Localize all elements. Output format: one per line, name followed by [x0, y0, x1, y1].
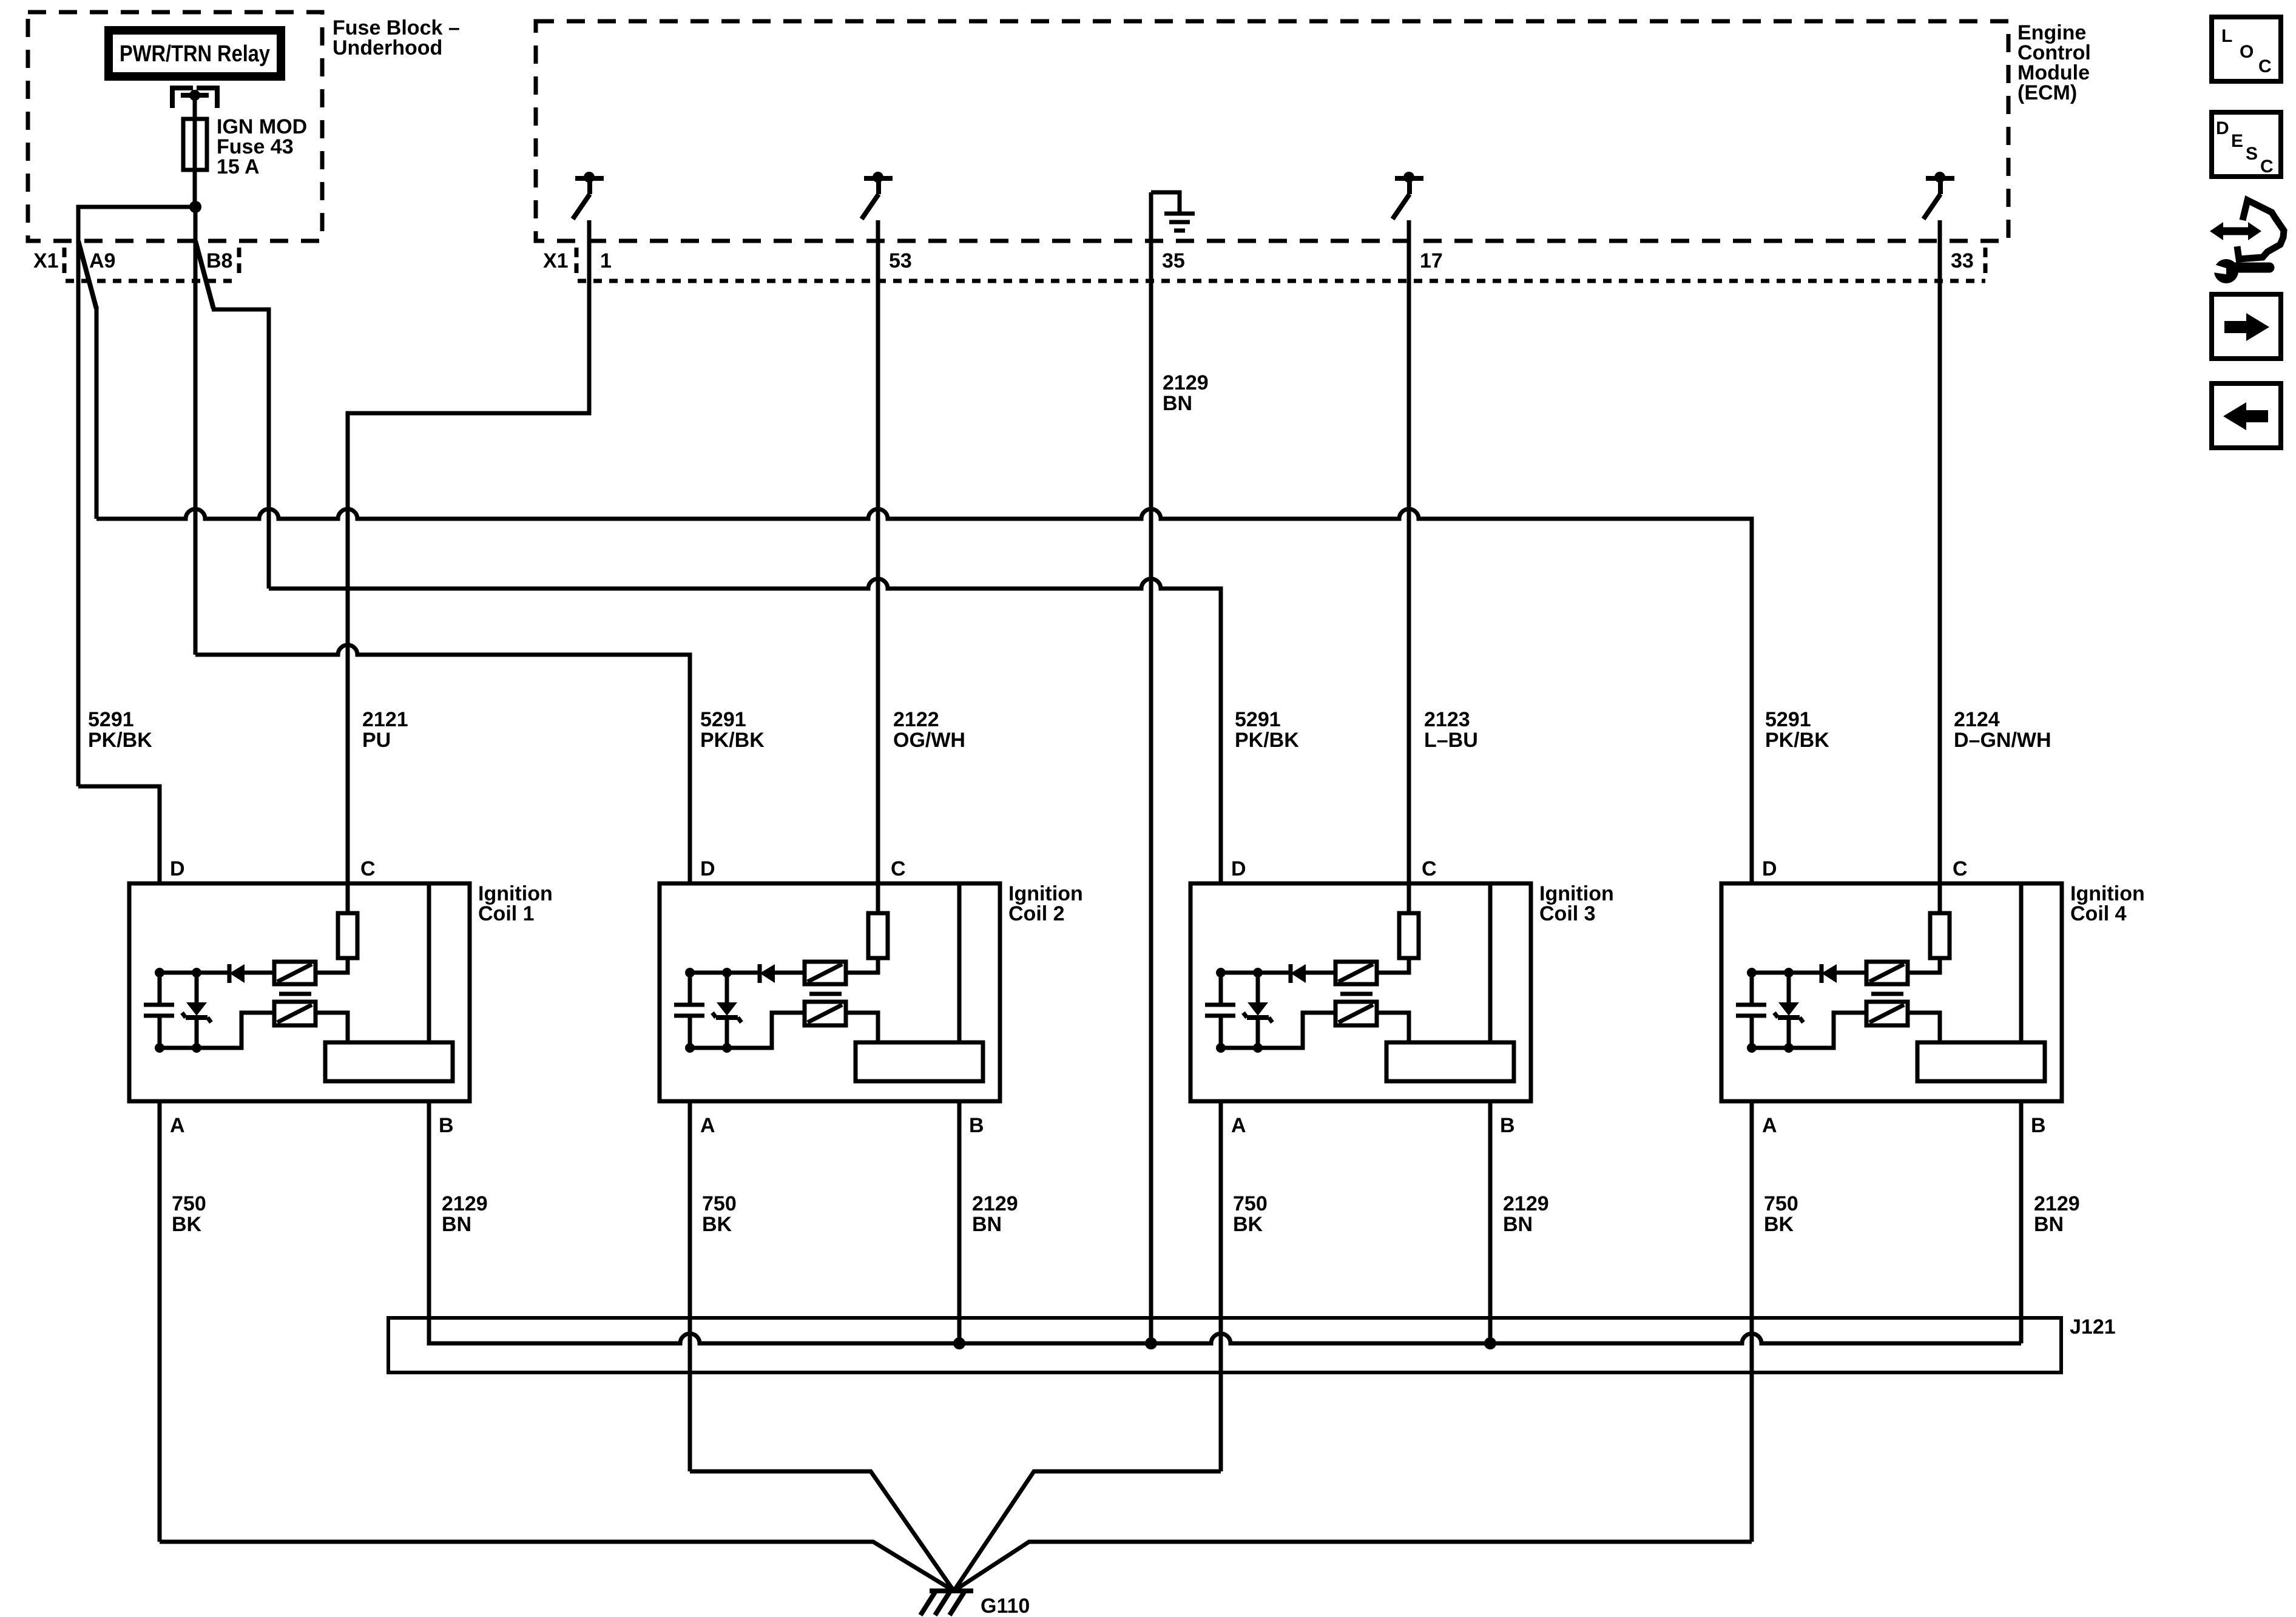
pin A9 slant — [78, 241, 96, 309]
ignition coil 1 label — [478, 882, 553, 925]
ground wire upper run (coil2 A / coil3 A) — [690, 1471, 1221, 1591]
coil 1 label 750 BK — [172, 1192, 206, 1236]
coil 4 secondary winding — [1866, 1002, 1908, 1025]
svg-text:2129: 2129 — [972, 1192, 1018, 1215]
coil 4 label 750 BK — [1764, 1192, 1798, 1236]
pin label 17 — [1420, 249, 1443, 272]
svg-text:PK/BK: PK/BK — [1235, 729, 1299, 752]
ignition coil 1 box — [129, 883, 470, 1101]
pin label 53 — [889, 249, 912, 272]
wire label 5291 PK/BK — [700, 708, 765, 752]
svg-text:OG/WH: OG/WH — [893, 729, 965, 752]
svg-text:B: B — [969, 1114, 984, 1137]
coil 2 wire C to resistor — [876, 883, 880, 913]
svg-text:2129: 2129 — [2034, 1192, 2080, 1215]
coil 4 wire secondary to module — [1752, 1013, 1940, 1048]
svg-text:C: C — [2258, 56, 2272, 76]
coil 4 core — [1871, 992, 1903, 996]
splice J121 outline — [388, 1318, 2061, 1372]
coil 2 junction nodes — [685, 968, 732, 1053]
coil 2 zener triangle — [717, 1002, 737, 1016]
ECM driver switch pin 53 — [862, 178, 893, 219]
svg-text:750: 750 — [1764, 1192, 1798, 1215]
coil 3 wire A 750 BK — [1219, 1101, 1223, 1471]
fuse block connector X1 row — [64, 248, 239, 281]
coil 4 primary winding — [1866, 962, 1908, 984]
wire ECM pin 17 to coil 3 C (2123 L-BU) — [1407, 220, 1411, 913]
coil 2 wire secondary to module — [690, 1013, 878, 1048]
svg-text:C: C — [2260, 157, 2274, 177]
ignition coil 4 box — [1721, 883, 2062, 1101]
svg-text:J121: J121 — [2070, 1315, 2116, 1338]
ECM label — [2017, 21, 2091, 104]
ignition coil 3 box — [1190, 883, 1531, 1101]
coil 2 wire A 750 BK — [688, 1101, 692, 1471]
wire label 2124 D–GN/WH — [1954, 708, 2051, 752]
svg-text:2129: 2129 — [442, 1192, 488, 1215]
connector label X1 (ECM) — [543, 249, 569, 272]
svg-text:Underhood: Underhood — [333, 36, 442, 59]
coil 3 diode D1 — [1291, 964, 1306, 983]
svg-text:15 A: 15 A — [217, 155, 260, 178]
coil 3 wire D junction row — [1221, 971, 1335, 975]
coil 1 wire C to resistor — [346, 883, 350, 913]
coil 3 junction nodes — [1216, 968, 1263, 1053]
wire ECM pin 35 ground 2129 BN to splice J121 — [1149, 192, 1153, 1343]
svg-text:A: A — [1231, 1114, 1246, 1137]
coil 3 driver module block — [1386, 883, 1514, 1081]
coil 1 wire resistor to primary winding — [316, 958, 348, 973]
coil 1 core — [279, 992, 311, 996]
coil 4 wire C to resistor — [1938, 883, 1942, 913]
svg-text:2129: 2129 — [1503, 1192, 1549, 1215]
coil 1 wire A 750 BK — [158, 1101, 162, 1542]
wire ECM pin 53 to coil 2 C (2122 OG/WH) — [876, 220, 880, 913]
svg-text:D: D — [2216, 118, 2229, 138]
svg-text:C: C — [1953, 857, 1968, 880]
engine control module (ECM) dashed box — [536, 21, 2008, 241]
svg-text:2123: 2123 — [1424, 708, 1470, 731]
ECM driver switch pin 1 — [573, 178, 604, 219]
svg-text:53: 53 — [889, 249, 912, 272]
svg-text:S: S — [2246, 144, 2258, 164]
coil 2 label 750 BK — [702, 1192, 737, 1236]
coil 3 primary winding — [1335, 962, 1377, 984]
ground wire lower run (coil1 A / coil4 A) — [160, 1542, 1752, 1591]
svg-text:L–BU: L–BU — [1424, 729, 1478, 752]
svg-text:D–GN/WH: D–GN/WH — [1954, 729, 2051, 752]
svg-text:17: 17 — [1420, 249, 1443, 272]
coil 4 junction nodes — [1747, 968, 1794, 1053]
pin label 33 — [1951, 249, 1974, 272]
wire A9 to 5291 feed bus — [95, 306, 99, 519]
wire label 2122 OG/WH — [893, 708, 965, 752]
pin label A9 — [89, 249, 115, 272]
svg-text:X1: X1 — [543, 249, 569, 272]
coil 1 wire D junction row — [160, 971, 274, 975]
fuse block - underhood dashed box — [28, 12, 322, 241]
svg-text:B: B — [2031, 1114, 2046, 1137]
coil 3 wire secondary to module — [1221, 1013, 1409, 1048]
node fuse output junction — [189, 201, 201, 213]
coil 4 wire B 2129 BN — [2019, 1101, 2024, 1343]
coil 2 label 2129 BN — [972, 1192, 1018, 1236]
ignition coil 2 box — [660, 883, 1000, 1101]
coil 2 wire D junction row — [690, 971, 805, 975]
coil 1 capacitor C1 — [144, 973, 174, 1048]
coil 4 pin labels D C A B — [1762, 857, 2046, 1137]
coil 1 wire secondary to module — [160, 1013, 348, 1048]
svg-text:BK: BK — [1233, 1213, 1263, 1236]
coil 2 resistor — [868, 913, 888, 958]
coil 2 pin labels D C A B — [700, 857, 984, 1137]
ECM internal ground at pin 35 — [1151, 192, 1195, 231]
svg-text:2122: 2122 — [893, 708, 939, 731]
relay K1 PWR/TRN Relay — [109, 30, 281, 76]
svg-text:D: D — [1231, 857, 1246, 880]
svg-text:D: D — [700, 857, 715, 880]
wire label 2129 BN (pin 35) — [1163, 371, 1209, 415]
coil 4 resistor — [1930, 913, 1950, 958]
svg-text:L: L — [2221, 26, 2232, 46]
coil 1 zener diode Z1 — [182, 973, 211, 1048]
coil 4 zener triangle — [1778, 1002, 1799, 1016]
wire relay to fuse to junction — [193, 95, 197, 207]
svg-text:C: C — [1422, 857, 1437, 880]
svg-text:PWR/TRN Relay: PWR/TRN Relay — [120, 41, 270, 67]
wire coil 1 D drop jog — [78, 786, 160, 883]
coil 3 wire resistor to primary winding — [1377, 958, 1409, 973]
ECM driver switch pin 33 — [1923, 178, 1954, 219]
coil 3 resistor — [1399, 913, 1419, 958]
pin label B8 — [206, 249, 232, 272]
coil 2 wire resistor to primary winding — [846, 958, 878, 973]
coil 3 label 750 BK — [1233, 1192, 1268, 1236]
label J121 — [2070, 1315, 2116, 1338]
svg-text:(ECM): (ECM) — [2017, 81, 2077, 104]
wire ECM pin 1 to coil 1 C (2121 PU) — [348, 220, 589, 913]
ignition coil 3 label — [1539, 882, 1614, 925]
coil 1 driver module block — [325, 883, 453, 1081]
fuse block label — [333, 16, 460, 59]
coil 1 primary winding — [274, 962, 316, 984]
ignition coil 2 label — [1008, 882, 1083, 925]
svg-text:Coil 2: Coil 2 — [1008, 902, 1065, 925]
coil 4 driver module block — [1917, 883, 2045, 1081]
coil 3 core — [1340, 992, 1373, 996]
coil 2 capacitor C1 — [674, 973, 704, 1048]
fuse F43 IGN MOD 15A — [183, 115, 307, 178]
wire label 2121 PU — [362, 708, 408, 752]
coil 3 pin labels D C A B — [1231, 857, 1515, 1137]
coil 3 secondary winding — [1335, 1002, 1377, 1025]
svg-text:35: 35 — [1162, 249, 1185, 272]
wire label 5291 PK/BK — [1765, 708, 1829, 752]
svg-text:750: 750 — [1233, 1192, 1268, 1215]
coil 2 core — [809, 992, 842, 996]
coil 3 wire C to resistor — [1407, 883, 1411, 913]
svg-text:E: E — [2231, 131, 2243, 151]
ECM driver switch pin 17 — [1393, 178, 1423, 219]
coil 1 resistor — [338, 913, 357, 958]
wire label 5291 PK/BK — [1235, 708, 1299, 752]
ECM connector X1 row — [576, 248, 1985, 281]
node splice B3 — [1484, 1337, 1496, 1349]
svg-text:33: 33 — [1951, 249, 1974, 272]
ground G110 symbol — [920, 1591, 973, 1615]
svg-text:Coil 4: Coil 4 — [2070, 902, 2127, 925]
svg-text:2121: 2121 — [362, 708, 408, 731]
coil 2 diode D1 — [760, 964, 775, 983]
splice J121 ground bus wire — [429, 1334, 2021, 1343]
svg-text:C: C — [891, 857, 906, 880]
svg-text:2129: 2129 — [1163, 371, 1209, 394]
coil 3 zener triangle — [1248, 1002, 1268, 1016]
wire junction to A9 drop — [78, 207, 195, 786]
relay contact terminal — [172, 88, 217, 108]
coil 1 wire B 2129 BN — [427, 1101, 431, 1343]
coil 1 junction nodes — [155, 968, 201, 1053]
coil 4 wire resistor to primary winding — [1908, 958, 1940, 973]
svg-text:D: D — [1762, 857, 1777, 880]
pin label 35 — [1162, 249, 1185, 272]
svg-text:A9: A9 — [89, 249, 115, 272]
icon forward arrow box — [2212, 294, 2281, 359]
wire bus to coil 3 D — [269, 579, 1221, 883]
coil 4 diode D1 — [1822, 964, 1837, 983]
svg-text:PK/BK: PK/BK — [88, 729, 152, 752]
svg-text:PK/BK: PK/BK — [700, 729, 765, 752]
svg-text:O: O — [2240, 42, 2254, 62]
svg-text:B: B — [1500, 1114, 1515, 1137]
svg-text:BK: BK — [702, 1213, 732, 1236]
svg-text:BN: BN — [2034, 1213, 2064, 1236]
label G110 — [981, 1595, 1030, 1617]
svg-text:1: 1 — [600, 249, 612, 272]
wire label 2123 L–BU — [1424, 708, 1478, 752]
svg-text:5291: 5291 — [88, 708, 134, 731]
coil 1 label 2129 BN — [442, 1192, 488, 1236]
coil 2 secondary winding — [805, 1002, 846, 1025]
icon back arrow box — [2212, 383, 2281, 448]
svg-text:A: A — [700, 1114, 715, 1137]
svg-text:750: 750 — [172, 1192, 206, 1215]
svg-text:BN: BN — [972, 1213, 1002, 1236]
wire junction through B8 to coil2 feed — [194, 207, 198, 655]
svg-text:A: A — [1762, 1114, 1777, 1137]
svg-text:Coil 3: Coil 3 — [1539, 902, 1596, 925]
wire label 5291 PK/BK — [88, 708, 152, 752]
connector label X1 (fuse block) — [33, 249, 59, 272]
svg-text:BN: BN — [442, 1213, 471, 1236]
svg-text:5291: 5291 — [1765, 708, 1811, 731]
svg-text:G110: G110 — [981, 1595, 1030, 1617]
coil 3 capacitor C1 — [1205, 973, 1235, 1048]
coil 1 zener triangle — [186, 1002, 207, 1016]
svg-text:PU: PU — [362, 729, 391, 752]
coil 2 wire B 2129 BN — [957, 1101, 962, 1343]
coil 3 wire B 2129 BN — [1488, 1101, 1493, 1343]
svg-text:B8: B8 — [206, 249, 232, 272]
ignition coil 4 label — [2070, 882, 2145, 925]
node splice pin35 wire — [1145, 1337, 1157, 1349]
wire ECM pin 33 to coil 4 C (2124 D-GN/WH) — [1938, 220, 1942, 913]
svg-text:C: C — [360, 857, 376, 880]
coil 4 wire D junction row — [1752, 971, 1866, 975]
svg-text:A: A — [170, 1114, 185, 1137]
svg-text:5291: 5291 — [1235, 708, 1281, 731]
node splice B2 — [953, 1337, 965, 1349]
wire bus 5291 PK/BK feed (to coil 4 D) — [96, 509, 1752, 883]
coil 4 zener diode Z1 — [1774, 973, 1803, 1048]
svg-text:2124: 2124 — [1954, 708, 2000, 731]
coil 1 diode D1 — [229, 964, 245, 983]
svg-text:BK: BK — [172, 1213, 202, 1236]
wire bus to coil 2 D — [195, 645, 690, 883]
coil 4 label 2129 BN — [2034, 1192, 2080, 1236]
coil 1 pin labels D C A B — [170, 857, 454, 1137]
svg-text:PK/BK: PK/BK — [1765, 729, 1829, 752]
coil 2 primary winding — [805, 962, 846, 984]
icon DESC box — [2212, 112, 2281, 177]
coil 2 driver module block — [856, 883, 983, 1081]
coil 2 zener diode Z1 — [712, 973, 741, 1048]
coil 3 label 2129 BN — [1503, 1192, 1549, 1236]
icon hand with double arrow and wrench — [2209, 200, 2284, 283]
svg-text:D: D — [170, 857, 185, 880]
svg-text:BK: BK — [1764, 1213, 1794, 1236]
coil 3 zener diode Z1 — [1243, 973, 1272, 1048]
coil 1 secondary winding — [274, 1002, 316, 1025]
icon LOC box — [2212, 17, 2281, 81]
coil 4 capacitor C1 — [1736, 973, 1766, 1048]
coil 4 wire A 750 BK — [1750, 1101, 1754, 1542]
svg-text:B: B — [439, 1114, 454, 1137]
pin B8 slant — [195, 241, 214, 309]
svg-text:5291: 5291 — [700, 708, 746, 731]
svg-text:Coil 1: Coil 1 — [478, 902, 535, 925]
pin label 1 — [600, 249, 612, 272]
wire B8 slant to coil3 feed drop — [212, 309, 269, 589]
svg-text:BN: BN — [1163, 392, 1192, 415]
svg-text:X1: X1 — [33, 249, 59, 272]
svg-text:750: 750 — [702, 1192, 737, 1215]
svg-text:BN: BN — [1503, 1213, 1533, 1236]
